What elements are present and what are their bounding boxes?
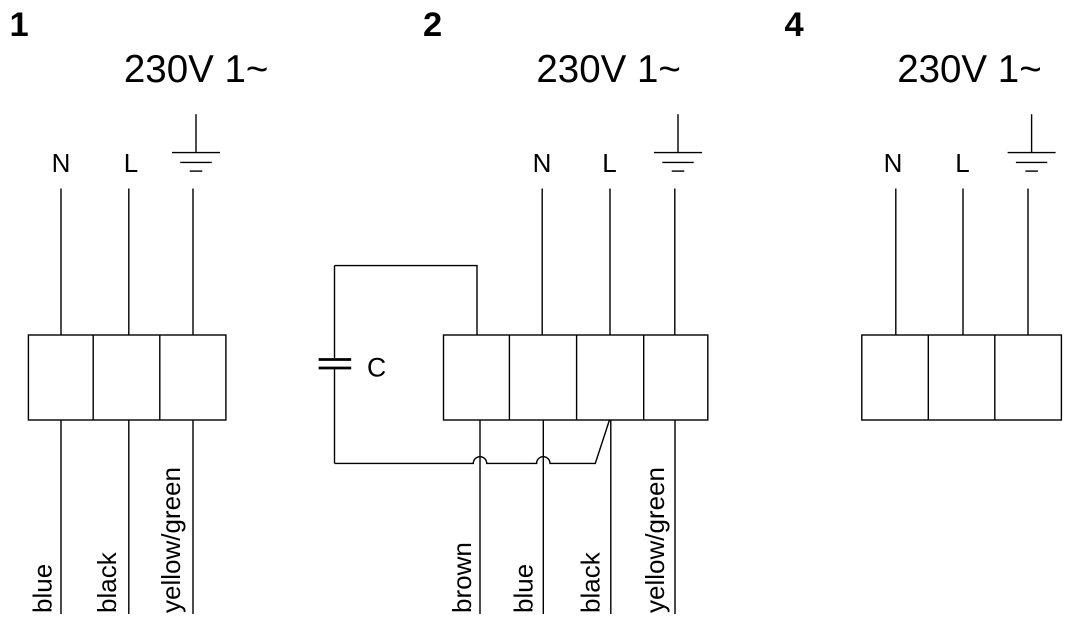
svg-text:brown: brown bbox=[447, 542, 477, 613]
wire yellow/green circuit 2 bbox=[674, 420, 676, 614]
svg-text:yellow/green: yellow/green bbox=[156, 467, 186, 613]
svg-text:N: N bbox=[884, 148, 903, 178]
wire PE circuit 4 bbox=[1027, 189, 1029, 336]
svg-text:blue: blue bbox=[28, 564, 58, 613]
svg-text:230V 1~: 230V 1~ bbox=[897, 48, 1042, 91]
wire black circuit 2 bbox=[610, 420, 612, 614]
ground symbol circuit 4 bbox=[1008, 114, 1056, 171]
svg-text:L: L bbox=[602, 148, 616, 178]
wire N circuit 4 bbox=[895, 189, 897, 336]
wire black circuit 1 bbox=[128, 420, 130, 614]
wire blue circuit 2 bbox=[542, 420, 544, 614]
wire N circuit 2 bbox=[541, 189, 543, 336]
wire L circuit 4 bbox=[962, 189, 964, 336]
svg-text:1: 1 bbox=[10, 6, 29, 44]
svg-text:L: L bbox=[955, 148, 969, 178]
terminal block circuit 2 bbox=[444, 335, 708, 420]
wire brown circuit 2 bbox=[479, 420, 481, 614]
capacitor bottom wire with hops to terminal 3 bbox=[335, 420, 610, 464]
svg-text:blue: blue bbox=[508, 564, 538, 613]
svg-text:yellow/green: yellow/green bbox=[640, 467, 670, 613]
svg-text:230V 1~: 230V 1~ bbox=[124, 48, 269, 91]
svg-text:black: black bbox=[92, 551, 122, 613]
terminal block circuit 1 bbox=[28, 335, 226, 420]
svg-text:2: 2 bbox=[423, 6, 442, 44]
capacitor top wire bbox=[335, 266, 478, 335]
wire PE circuit 2 bbox=[674, 189, 676, 336]
svg-text:230V 1~: 230V 1~ bbox=[536, 48, 681, 91]
svg-text:L: L bbox=[124, 148, 138, 178]
svg-text:C: C bbox=[367, 352, 386, 382]
wire PE circuit 1 bbox=[192, 189, 194, 336]
svg-text:N: N bbox=[533, 148, 552, 178]
svg-text:N: N bbox=[52, 148, 71, 178]
wire N circuit 1 bbox=[60, 189, 62, 336]
wire L circuit 1 bbox=[128, 189, 130, 336]
capacitor C bbox=[319, 266, 352, 464]
terminal block circuit 4 bbox=[862, 335, 1062, 420]
wire blue circuit 1 bbox=[60, 420, 62, 614]
svg-text:black: black bbox=[576, 551, 606, 613]
wire yellow/green circuit 1 bbox=[192, 420, 194, 614]
ground symbol circuit 1 bbox=[172, 114, 220, 171]
wire L circuit 2 bbox=[609, 189, 611, 336]
svg-text:4: 4 bbox=[785, 6, 804, 44]
ground symbol circuit 2 bbox=[654, 114, 702, 171]
